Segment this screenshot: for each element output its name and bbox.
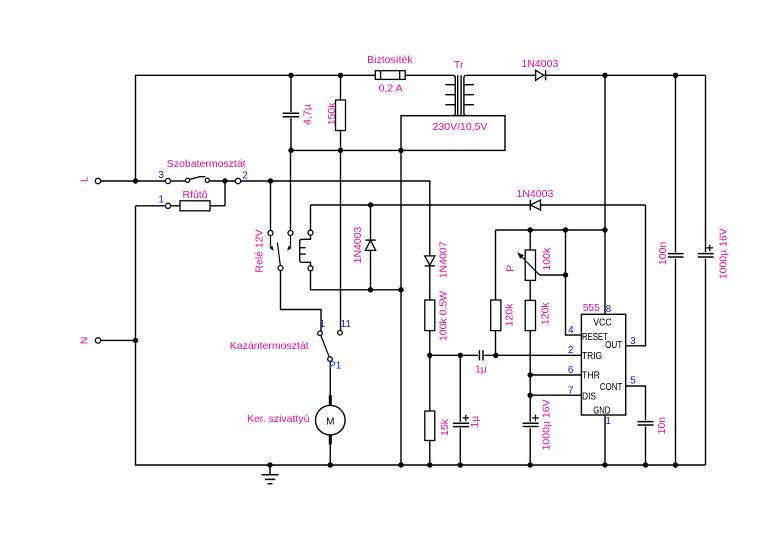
- capacitor electrolytic 1000u 16V (supply): [698, 245, 715, 259]
- svg-text:Rfûtô: Rfûtô: [182, 189, 207, 201]
- capacitor electrolytic 1u: [453, 415, 470, 429]
- wire relay coil top riser: [310, 205, 312, 230]
- wire 150k branch: [340, 75, 342, 150]
- svg-text:3: 3: [158, 170, 164, 181]
- svg-text:1µ: 1µ: [475, 364, 487, 376]
- kazan terminal 1 circle: [318, 331, 323, 336]
- svg-text:TRIG: TRIG: [582, 351, 602, 362]
- kazan contact P1 circle: [328, 357, 333, 362]
- svg-text:Kazántermosztát: Kazántermosztát: [230, 340, 309, 352]
- svg-text:6: 6: [568, 365, 574, 376]
- capacitor 4,7u: [282, 112, 300, 118]
- svg-text:1N4003: 1N4003: [517, 188, 554, 200]
- diode D1 1N4003 rectifier: [536, 70, 546, 80]
- resistor 120k R5: [525, 300, 535, 330]
- svg-text:DIS: DIS: [582, 392, 596, 403]
- wire relay fixed contact 1 riser: [270, 181, 272, 231]
- relay common contact circle: [278, 266, 283, 271]
- wire VCC rail y230: [496, 229, 606, 231]
- wire node y150 line: [291, 149, 401, 151]
- svg-text:100n: 100n: [657, 242, 669, 266]
- svg-text:Biztosíték: Biztosíték: [367, 54, 413, 66]
- relay coil bottom circle: [308, 266, 313, 271]
- svg-text:L: L: [79, 176, 91, 182]
- wire Rfuto row: [136, 205, 225, 207]
- capacitor 1u coupling (TRIG): [478, 350, 484, 361]
- wire OUT pin 3 riser: [626, 205, 646, 346]
- wire secondary top rail to rectifier: [467, 74, 706, 76]
- svg-text:RESET: RESET: [582, 332, 608, 343]
- svg-text:4,7µ: 4,7µ: [301, 104, 313, 125]
- svg-text:120k: 120k: [539, 302, 551, 326]
- op-amp U1 555 timer box: [581, 314, 625, 415]
- wire 100n branch x675: [675, 75, 677, 465]
- wire kazan switch P1 drop to motor: [329, 361, 331, 396]
- wire motor to ground rail: [329, 444, 331, 465]
- wire relay common to terminal 1: [281, 270, 322, 331]
- svg-text:Ker. szivattyú: Ker. szivattyú: [247, 413, 310, 425]
- wire N terminal: [100, 339, 136, 341]
- wire TRIG node y355: [430, 354, 582, 356]
- capacitor 10n: [637, 420, 654, 426]
- wire flyback diode branch: [370, 205, 372, 290]
- terminal 2 circle: [235, 178, 240, 183]
- wire thermostat to 1N4007 branch (node after terminal 2): [209, 181, 429, 256]
- svg-text:OUT: OUT: [605, 340, 622, 351]
- svg-text:5: 5: [630, 375, 636, 386]
- terminal 3 circle: [165, 178, 170, 183]
- relay coil top circle: [308, 230, 313, 235]
- svg-text:4: 4: [568, 325, 574, 336]
- wire thermostat circle 3 to switch: [171, 180, 186, 182]
- wire right edge 1000u branch: [705, 75, 707, 465]
- relay fixed contact 1 arrow: [269, 235, 274, 251]
- diode D3 1N4003 output to relay: [530, 200, 540, 211]
- svg-text:555: 555: [583, 302, 600, 314]
- wire relay contact 11 riser: [340, 150, 342, 330]
- wire GND pin 1 drop: [604, 415, 606, 465]
- svg-text:11: 11: [341, 319, 352, 330]
- wire CONT pin 5 to 10n: [626, 386, 646, 465]
- wire transformer return x401: [400, 150, 402, 465]
- thermostat switch contact circles: [185, 178, 209, 182]
- wire divider chain 1N4007 to ground: [429, 266, 431, 465]
- svg-text:1N4003: 1N4003: [352, 226, 364, 263]
- potentiometer P wiper arrow: [517, 252, 539, 275]
- transformer label box 230V/10,5V: [401, 116, 505, 151]
- svg-text:230V/10,5V: 230V/10,5V: [433, 121, 488, 133]
- wire relay drive rail y205 to 555 output: [311, 204, 646, 206]
- svg-text:150k: 150k: [326, 102, 338, 126]
- svg-text:Tr: Tr: [454, 59, 464, 71]
- wire left edge drop and bottom ground rail: [136, 206, 706, 465]
- wire DIS pin 7: [530, 394, 581, 396]
- svg-text:1: 1: [605, 416, 611, 427]
- svg-text:P: P: [504, 265, 516, 272]
- thermostat switch blade (Szobatermosztat): [189, 177, 205, 180]
- diode D2 1N4003 relay flyback: [365, 240, 375, 250]
- wire THR pin 6: [530, 374, 581, 376]
- svg-text:1N4003: 1N4003: [522, 58, 559, 70]
- relay fixed contact circle 2: [288, 231, 293, 236]
- svg-text:2: 2: [568, 345, 574, 356]
- relay fixed contact 2 arrow: [287, 235, 292, 251]
- relay coil 12V: [300, 235, 311, 266]
- wire electrolytic 1u branch x460: [459, 355, 461, 465]
- svg-text:CONT: CONT: [600, 382, 623, 393]
- fuse Biztositek 0,2A: [375, 71, 405, 80]
- resistor 100k 0.5W: [425, 300, 435, 331]
- kazan thermostat switch blade: [321, 336, 329, 357]
- resistor 15k: [425, 411, 435, 441]
- svg-text:2: 2: [242, 171, 248, 182]
- svg-text:10n: 10n: [656, 417, 668, 435]
- transformer Tr primary winding: [445, 75, 455, 115]
- wire RESET riser x565: [566, 230, 582, 335]
- transformer Tr secondary winding: [464, 75, 474, 115]
- svg-text:1: 1: [320, 319, 326, 330]
- wire VCC riser x605: [604, 75, 606, 314]
- svg-text:1µ: 1µ: [469, 416, 481, 428]
- svg-text:7: 7: [568, 385, 574, 396]
- svg-text:8: 8: [606, 304, 612, 315]
- transformer Tr core: [458, 75, 461, 115]
- wire relay fixed contact 2 riser: [290, 150, 292, 230]
- resistor 120k R4: [491, 300, 501, 331]
- svg-text:GND: GND: [593, 406, 610, 417]
- svg-text:1000µ 16V: 1000µ 16V: [717, 228, 729, 279]
- terminal L circle: [95, 178, 100, 183]
- wire Rfuto right riser: [224, 181, 226, 206]
- resistor Rfuto: [180, 201, 210, 211]
- relay switch blade: [277, 243, 280, 266]
- potentiometer P 100k body: [525, 250, 535, 280]
- svg-text:0,2 A: 0,2 A: [379, 82, 403, 94]
- wire relay coil return: [311, 271, 402, 290]
- svg-text:120k: 120k: [504, 303, 516, 327]
- svg-text:100k: 100k: [541, 247, 553, 271]
- svg-text:N: N: [79, 337, 91, 345]
- capacitor electrolytic 1000u 16V (555 timing): [522, 415, 539, 429]
- wire pot/120k chain x530 to ground: [529, 230, 531, 465]
- svg-text:100k 0.5W: 100k 0.5W: [438, 291, 450, 341]
- svg-text:P1: P1: [329, 361, 342, 372]
- wire pot wiper: [540, 274, 566, 276]
- capacitor 100n: [667, 252, 684, 258]
- wire 4,7u capacitor branch: [290, 75, 292, 150]
- svg-text:1: 1: [158, 195, 164, 206]
- svg-text:15k: 15k: [439, 418, 451, 436]
- wire top-left riser and top rail (mains side): [136, 75, 453, 181]
- terminal N circle: [95, 338, 100, 343]
- svg-text:Szobatermosztát: Szobatermosztát: [167, 158, 246, 170]
- svg-text:THR: THR: [582, 371, 600, 382]
- relay fixed contact circle 1: [268, 231, 273, 236]
- svg-text:3: 3: [630, 336, 636, 347]
- svg-text:1N4007: 1N4007: [438, 241, 450, 278]
- svg-text:VCC: VCC: [593, 317, 612, 328]
- motor M (Ker. szivattyu): [316, 395, 346, 444]
- resistor 150k: [336, 100, 346, 131]
- svg-text:M: M: [326, 416, 334, 427]
- diode D4 1N4007: [425, 256, 435, 266]
- kazan terminal 11 circle: [338, 330, 343, 335]
- ground symbol: [262, 465, 279, 484]
- svg-text:Relé 12V: Relé 12V: [254, 229, 266, 272]
- wire L terminal to junction: [100, 180, 166, 182]
- terminal 1 circle: [165, 203, 170, 208]
- svg-text:1000µ 16V: 1000µ 16V: [541, 399, 553, 450]
- wire 120k R4 branch x495: [495, 230, 497, 355]
